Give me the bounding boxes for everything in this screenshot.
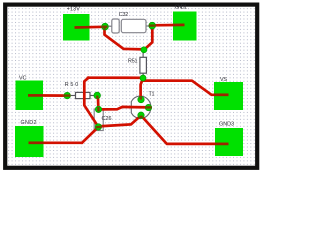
wire inside GND1 pad	[173, 24, 185, 27]
via C32 left	[102, 23, 109, 30]
capacitor C26 body	[94, 109, 103, 131]
pad T1 right	[145, 104, 151, 110]
via R50 left	[64, 92, 71, 99]
wire R51 bottom via down to T1 top pad	[141, 79, 143, 100]
resistor R50 body	[71, 92, 94, 98]
wire inside VC pad	[28, 94, 43, 97]
svg-text:GND3: GND3	[219, 122, 234, 128]
pad +13V	[63, 14, 90, 41]
wire C26 bottom via to T1 bottom apex	[98, 116, 141, 127]
via C32 right	[149, 22, 156, 29]
svg-text:GND1: GND1	[175, 5, 188, 11]
wire C26 top via to T1 right pad	[99, 107, 149, 110]
transistor T1 body (TO-92 outline)	[131, 96, 151, 118]
wire diagonal up to C26 bottom via	[82, 127, 98, 143]
wire C32 left via down/diagonal to R51 top via	[105, 27, 144, 50]
pad VC	[16, 81, 44, 111]
pad GND3	[215, 128, 243, 156]
via C26 top	[95, 106, 101, 112]
pad T1 top	[138, 96, 144, 102]
wire inside +13V pad	[75, 26, 90, 29]
via R51 top	[141, 47, 147, 53]
capacitor C32 body	[109, 19, 150, 33]
wire C32 right via to GND1 pad	[152, 24, 184, 27]
via R51 bottom	[140, 75, 146, 81]
resistor R51 body	[140, 52, 147, 76]
wire inside VS pad	[214, 93, 229, 96]
wire R51 bottom via to VS pad	[143, 81, 229, 95]
via R50 right	[94, 92, 101, 99]
grid dots	[7, 7, 255, 165]
svg-text:R51: R51	[128, 58, 138, 64]
wire R50 right via down to C26 top via	[97, 96, 100, 110]
pad T1 bottom	[138, 112, 144, 118]
svg-text:T1: T1	[149, 91, 155, 97]
via C26 bottom	[95, 124, 101, 130]
pad VS	[214, 82, 243, 110]
svg-text:R50: R50	[65, 82, 79, 88]
wire C32 right via S-bend to R51 top via	[144, 26, 152, 50]
wire inside GND3 pad	[215, 143, 229, 146]
wire +13V pad to C32 left via	[75, 25, 105, 28]
wire left bend down through R50 to C26 bottom via	[84, 78, 98, 127]
svg-text:VS: VS	[220, 77, 227, 83]
svg-text:VC: VC	[19, 75, 27, 81]
svg-text:+13V: +13V	[67, 7, 80, 13]
wire VC pad to R50 left via	[28, 94, 67, 97]
wire R51 bottom via left horizontal	[88, 76, 143, 79]
wire inside GND2 pad	[29, 141, 44, 144]
wire T1 bottom pad to GND3 pad	[141, 116, 229, 144]
pad GND2	[15, 126, 44, 157]
svg-text:GND2: GND2	[21, 120, 37, 126]
board outline frame	[5, 5, 257, 168]
wire GND2 pad right	[29, 141, 83, 144]
svg-text:C32: C32	[119, 12, 129, 18]
svg-text:C26: C26	[102, 116, 112, 122]
pad GND1	[173, 12, 197, 41]
